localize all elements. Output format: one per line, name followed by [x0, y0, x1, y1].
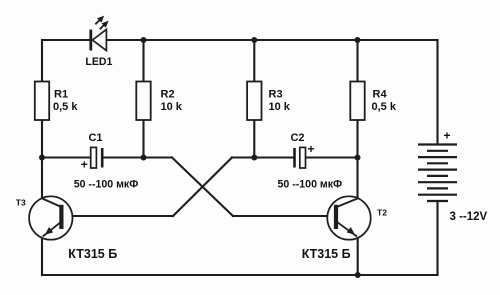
svg-text:10 k: 10 k [161, 101, 183, 113]
wire top rail left segment [42, 39, 89, 41]
wire C1 right plate to node B [103, 156, 144, 158]
wire R1 bottom lead [41, 120, 43, 158]
svg-text:+: + [443, 129, 450, 143]
wire node C to cross start [232, 156, 254, 158]
wire battery bottom lead [436, 201, 438, 275]
svg-text:10 k: 10 k [269, 101, 291, 113]
svg-text:R2: R2 [161, 89, 175, 101]
wire R2 bottom lead [142, 120, 144, 158]
wire T2 base lead [233, 215, 334, 217]
resistor R3 [247, 82, 291, 121]
wire T2 collector lead [356, 158, 358, 200]
node bottom rail T2 emitter [355, 272, 361, 278]
wire R2 top lead [142, 40, 144, 82]
wire top rail right segment [106, 39, 437, 41]
svg-text:T2: T2 [377, 208, 387, 218]
node top rail R4 column [355, 37, 361, 43]
wire node B to cross start [144, 156, 173, 158]
wire node C to C2 left plate [254, 156, 294, 158]
transistor T2 (right, KT315B) [302, 196, 387, 261]
node C (R3 bottom / C2- ) [251, 155, 257, 161]
wire battery top lead [436, 40, 438, 145]
wire bottom rail [42, 274, 438, 276]
svg-text:+: + [81, 158, 88, 172]
wire node A to C1 left plate [42, 156, 90, 158]
svg-text:50 --100 мкФ: 50 --100 мкФ [278, 179, 343, 191]
node D (R4 bottom / C2+ / T2 collector) [355, 155, 361, 161]
resistor R4 [350, 82, 397, 121]
wire left column upper (R1 top lead) [41, 40, 43, 82]
node B (R2 bottom / C1- ) [141, 155, 147, 161]
svg-text:R3: R3 [269, 89, 283, 101]
svg-text:0,5 k: 0,5 k [372, 101, 397, 113]
svg-text:3 --12V: 3 --12V [450, 211, 488, 223]
transistor T3 (left, KT315B) [16, 196, 117, 261]
svg-text:КТ315 Б: КТ315 Б [302, 247, 351, 261]
resistor R1 [35, 82, 79, 121]
wire R3 top lead [253, 40, 255, 82]
svg-text:R4: R4 [373, 89, 388, 101]
svg-text:КТ315 Б: КТ315 Б [68, 247, 117, 261]
wire T2 emitter lead down [357, 237, 359, 275]
wire R3 bottom lead [253, 120, 255, 158]
wire C2 right plate to node D [306, 156, 358, 158]
node top rail R2 column [141, 37, 147, 43]
capacitor C1 [74, 132, 139, 191]
node top rail R3 column [251, 37, 257, 43]
wire R4 top lead [356, 40, 358, 82]
svg-text:50 --100 мкФ: 50 --100 мкФ [74, 179, 139, 191]
svg-text:+: + [307, 142, 314, 156]
battery GB (3-12V) [418, 145, 457, 202]
svg-text:T3: T3 [16, 197, 26, 207]
node A (R1 bottom / C1+ / T3 collector) [39, 155, 45, 161]
wire T3 emitter lead down [41, 237, 43, 275]
svg-text:LED1: LED1 [85, 56, 112, 68]
LED LED1 [85, 16, 112, 68]
svg-text:R1: R1 [54, 89, 68, 101]
svg-text:C1: C1 [88, 132, 102, 144]
svg-text:C2: C2 [290, 132, 304, 144]
wire T3 collector lead [41, 158, 43, 200]
wire diagonal node C to T3 base [173, 158, 232, 217]
svg-text:0,5 k: 0,5 k [53, 101, 78, 113]
resistor R2 [136, 82, 182, 121]
capacitor C2 [278, 132, 343, 191]
wire diagonal node B to T2 base [172, 158, 233, 217]
wire R4 bottom lead [356, 120, 358, 158]
wire T3 base lead [64, 215, 173, 217]
